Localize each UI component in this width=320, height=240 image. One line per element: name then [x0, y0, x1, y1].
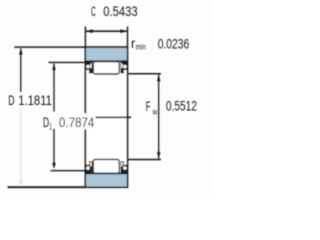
svg-text:1: 1: [49, 122, 52, 132]
outer ring bottom (blue section): [86, 174, 127, 187]
dimension D1 lower extension line: [51, 170, 86, 172]
seal top-right: [121, 62, 128, 74]
dimension D1 line upper: [53, 64, 55, 112]
svg-text:D: D: [8, 93, 15, 108]
shoulder line bottom: [85, 172, 127, 174]
centerline: [96, 116, 131, 118]
dimension D bottom extension line: [8, 186, 86, 188]
dimension D top extension line: [14, 46, 85, 48]
bearing outline rect: [85, 47, 127, 187]
svg-text:min: min: [136, 42, 146, 52]
svg-text:C: C: [91, 4, 96, 19]
svg-text:F: F: [146, 99, 151, 114]
needle roller top: [93, 62, 119, 74]
needle roller bottom: [93, 159, 119, 173]
label D1 0.7874 white backing: [56, 113, 96, 129]
arrow D1 up: [52, 63, 56, 70]
dimension D line upper (dark): [20, 49, 22, 92]
outer ring top (blue section): [86, 48, 127, 61]
arrow D1 down: [52, 163, 56, 170]
svg-text:1.1811: 1.1811: [18, 93, 52, 108]
dimension C line: [85, 30, 127, 32]
dimension D1 upper extension line: [49, 61, 86, 63]
dimension Fw line: [158, 75, 160, 159]
dimension Fw upper extension line: [128, 73, 161, 75]
arrow C left: [86, 29, 93, 33]
seal bottom-left: [86, 161, 93, 173]
arrow Fw up: [157, 75, 161, 82]
svg-text:0.5512: 0.5512: [166, 99, 197, 114]
arrow D down faint: [19, 180, 22, 186]
dimension Fw lower extension line: [128, 159, 161, 161]
svg-text:0.0236: 0.0236: [158, 36, 190, 51]
dimension C extension line left: [84, 27, 86, 48]
dimension D line lower (faint): [20, 106, 22, 185]
shoulder line top: [85, 60, 127, 62]
svg-text:0.7874: 0.7874: [59, 115, 95, 130]
svg-text:w: w: [152, 107, 158, 117]
seal top-left: [86, 62, 93, 74]
dimension D1 line lower: [53, 129, 55, 164]
dimension C extension line right: [127, 27, 129, 48]
svg-text:0.5433: 0.5433: [103, 4, 137, 19]
arrow D up: [19, 48, 23, 55]
arrow C right: [120, 29, 127, 33]
arrow Fw down: [157, 152, 161, 159]
seal bottom-right: [121, 161, 128, 173]
